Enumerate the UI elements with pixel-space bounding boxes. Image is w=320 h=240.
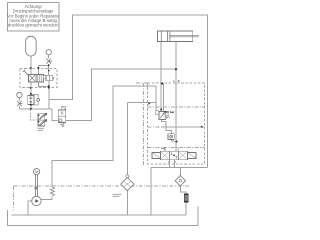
- wire manifold mid horizontal: [162, 126, 202, 128]
- wire accumulator line down: [30, 56, 32, 96]
- wire pilot box to B dot: [48, 81, 50, 87]
- wire valve A-port stub: [162, 148, 165, 152]
- arrowhead port P into valve box: [37, 67, 39, 69]
- wire return filter line: [127, 103, 129, 178]
- measuring point X2: [17, 101, 23, 106]
- arrowhead port B exit: [48, 87, 50, 89]
- directional valve V4 body: [160, 151, 187, 159]
- wire rail1: [12, 214, 187, 216]
- enclosure dashed valve box left: [20, 69, 57, 88]
- breather B1: [184, 194, 188, 202]
- pressure line spring throttle: [50, 187, 54, 196]
- wire B-port over-the-top line: [38, 82, 48, 109]
- arrowhead P into manifold: [148, 102, 150, 104]
- svg-text:B: B: [178, 79, 180, 83]
- pump P1: [32, 196, 41, 205]
- arrowhead port B out of valve box: [29, 87, 31, 89]
- enclosure power unit left dash-dot vertical: [13, 186, 15, 211]
- wire valve T to diamond: [169, 160, 171, 168]
- svg-text:A: A: [173, 79, 175, 83]
- relief valve 200bar: [159, 111, 166, 119]
- junction dot check valve bypass: [176, 141, 178, 143]
- wire pressure riser above spring: [52, 86, 156, 187]
- wire rail to solenoid valve: [52, 109, 58, 121]
- orifice label text: [38, 128, 44, 130]
- wire cap side cylinder line: [160, 42, 162, 112]
- hand lever valve V1 body: [28, 75, 43, 83]
- enclosure manifold inner separator 1: [148, 106, 205, 108]
- wire gauge line down to pilot box: [48, 66, 50, 76]
- junction dot below pressure valve: [30, 104, 32, 106]
- hand lever valve arrows: [29, 75, 35, 81]
- warning note box: [7, 3, 60, 32]
- svg-text:T: T: [175, 161, 177, 164]
- accumulator: [26, 36, 36, 56]
- tank line filter F2 diamond: [175, 176, 185, 186]
- solenoid seat valve V3: [62, 106, 66, 110]
- wire solenoid valve to rod side: [66, 69, 176, 120]
- junction dot pilot entry: [48, 70, 50, 72]
- wire valve P drop: [174, 160, 176, 168]
- svg-text:200 bar: 200 bar: [164, 110, 175, 114]
- wire pump suction: [28, 201, 32, 215]
- wire pump pressure riser: [41, 197, 52, 200]
- enclosure manifold inner separator 3: [148, 147, 205, 149]
- enclosure manifold inner separator 2: [148, 126, 205, 128]
- orifice plate component: [38, 114, 45, 126]
- svg-text:drucklos gemacht werden!: drucklos gemacht werden!: [8, 23, 59, 28]
- wire gauge branch to valve P: [38, 64, 48, 75]
- hand lever: [23, 70, 29, 76]
- enclosure manifold dashed box: [148, 83, 205, 164]
- pressure valve V2: [28, 96, 34, 105]
- wire relief outlet: [162, 120, 172, 134]
- wire bottom right run: [151, 167, 208, 169]
- junction dot B branch: [48, 85, 50, 87]
- junction dot rod line: [175, 68, 177, 70]
- valve V1 right attachment pilot box: [43, 76, 46, 79]
- directional valve arrows right cell: [180, 152, 187, 158]
- filter label: [113, 194, 122, 196]
- wire gauge stem: [48, 55, 50, 58]
- check valve R1: [168, 134, 174, 140]
- enclosure manifold top dash-dot extension: [136, 82, 148, 84]
- wire manifold drain: [150, 168, 152, 216]
- wire check valve bottom branch: [171, 140, 176, 142]
- svg-text:M: M: [35, 170, 38, 174]
- arrowhead at manifold mid line: [200, 126, 202, 128]
- coupling shaft: [36, 175, 38, 197]
- wire x2 stem: [18, 106, 20, 109]
- wire pressure valve to rail: [30, 105, 32, 109]
- wire rail left: [19, 108, 52, 110]
- wire tank outline: [8, 207, 198, 226]
- junction dot gauge line: [48, 64, 50, 66]
- junction dot cap line at manifold top: [161, 82, 163, 84]
- arrowhead port A into valve box: [30, 67, 32, 69]
- enclosure pilot stub below pressure valve: [30, 109, 38, 120]
- solenoid a: [152, 152, 160, 158]
- gauge G1: [46, 50, 51, 55]
- directional valve arrows left cell: [161, 152, 168, 158]
- junction dot valve center: [173, 155, 175, 157]
- directional valve center cell: [170, 152, 177, 159]
- enclosure power unit dash-dot horizontal: [14, 185, 190, 187]
- wire filter to rail1: [126, 191, 128, 216]
- return filter F1 diamond: [121, 178, 134, 191]
- wire diamond feed: [179, 168, 181, 176]
- wire rod side cylinder line: [175, 42, 177, 152]
- enclosure manifold left dash-dot: [143, 83, 145, 166]
- measuring point X1: [46, 59, 52, 64]
- wire relief branch parallel: [163, 84, 165, 112]
- wire B riser to top: [49, 15, 208, 168]
- motor M: [34, 169, 40, 175]
- gauge G2: [17, 92, 22, 97]
- junction dot cap line at separator: [160, 109, 162, 111]
- junction dot above pressure valve: [30, 93, 32, 95]
- wire breather to rail1: [185, 202, 187, 215]
- solenoid b: [188, 152, 196, 158]
- cylinder Z1: [158, 31, 193, 42]
- wire tank return drop: [128, 102, 156, 104]
- solenoid valve spring: [61, 123, 64, 128]
- wire diamond to breather: [180, 186, 186, 194]
- wire gauge2 stem: [18, 98, 20, 101]
